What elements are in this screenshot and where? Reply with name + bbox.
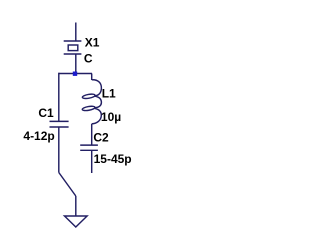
wire horizontal rail at node C [59,73,92,75]
wire top lead into X1 [75,23,77,42]
wire X1 bottom to node [75,54,77,74]
wire right drop from rail to L1 [91,74,93,81]
inductor L1 [82,80,101,124]
capacitor C1 [50,121,69,127]
svg-text:C1: C1 [38,106,54,120]
svg-text:C: C [84,51,93,65]
wire ground stem [75,196,77,216]
node C junction [73,72,77,76]
svg-text:L1: L1 [102,87,116,101]
svg-text:X1: X1 [85,36,100,50]
capacitor C2 [80,145,98,150]
wire L1 bottom to C2 [91,124,93,145]
wire left drop to C1 [58,73,60,122]
svg-text:10µ: 10µ [101,110,121,124]
ground [65,216,88,227]
svg-text:C2: C2 [93,131,109,145]
crystal X1 [64,41,82,54]
svg-text:15-45p: 15-45p [94,152,132,166]
wire C1 bottom down [58,127,60,173]
wire C2 bottom stub [91,150,93,173]
svg-text:4-12p: 4-12p [23,129,54,143]
wire diagonal to ground stem [59,173,76,197]
